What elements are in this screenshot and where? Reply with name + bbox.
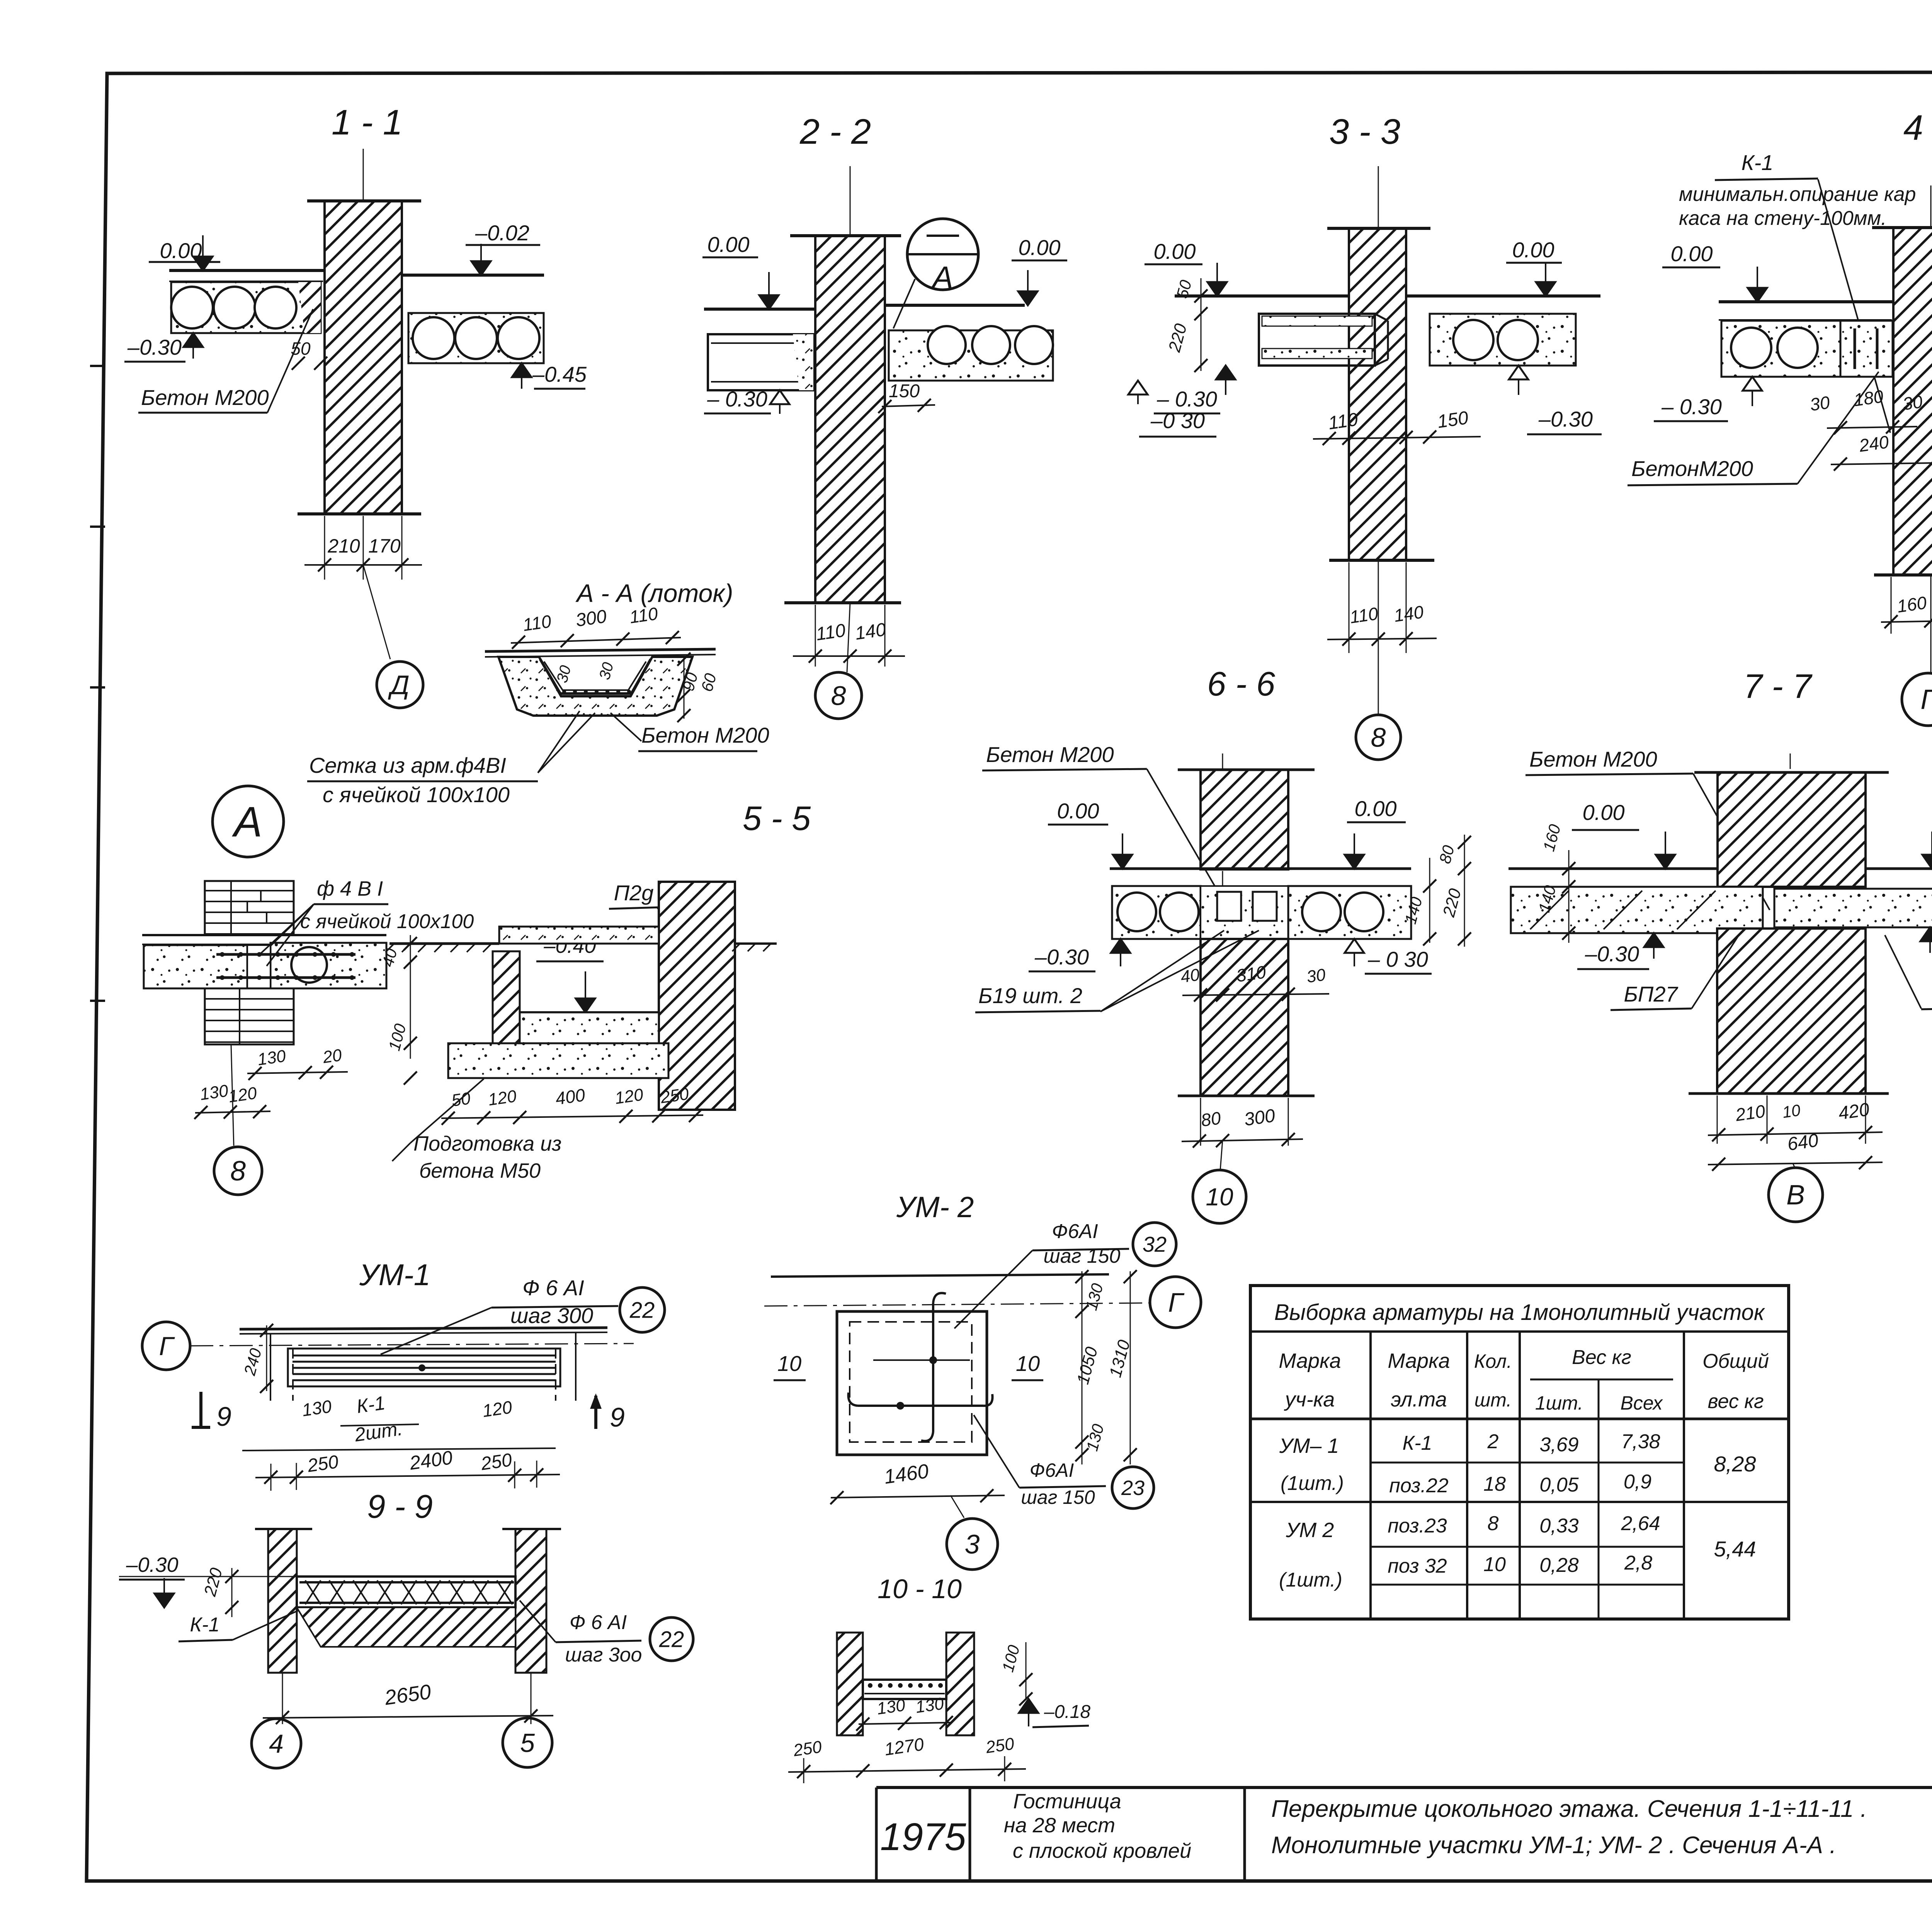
section 9-9 left wall hatched: [268, 1529, 297, 1673]
detail A brick wall below: [205, 988, 294, 1044]
svg-text:Г: Г: [1920, 684, 1932, 715]
section 9-9 monolithic beam band with stirrups: [297, 1577, 515, 1607]
svg-text:210: 210: [327, 535, 360, 557]
svg-text:–0 30: –0 30: [1150, 408, 1205, 433]
section 10-10 left wall hatched: [837, 1633, 863, 1735]
svg-text:–0.45: –0.45: [532, 362, 587, 386]
svg-text:П2g: П2g: [614, 881, 654, 905]
section 3-3 right floor line: [1406, 294, 1600, 298]
section 4-4 left floor line: [1719, 300, 1893, 303]
svg-text:250: 250: [984, 1734, 1015, 1757]
svg-text:Вес кг: Вес кг: [1572, 1346, 1631, 1369]
UM-1 dim line 250 2400 250: [242, 1448, 556, 1451]
svg-text:Монолитные участки УМ-1; У: Монолитные участки УМ-1; УМ- 2 . Сечения…: [1271, 1832, 1836, 1859]
svg-text:шаг 150: шаг 150: [1021, 1486, 1095, 1508]
svg-text:23: 23: [1121, 1476, 1145, 1500]
svg-text:каса на стену-100мм.: каса на стену-100мм.: [1679, 207, 1887, 230]
UM-2 opening outline: [837, 1311, 987, 1455]
axis marker 5 circle section 9-9: [503, 1718, 552, 1767]
svg-text:32: 32: [1143, 1232, 1167, 1257]
pit bottom slab: [520, 1011, 659, 1014]
detail A right slab with core: [270, 943, 386, 988]
pit right wall hatched: [659, 882, 735, 1110]
section 9-9 right wall hatched: [515, 1529, 546, 1673]
detail marker circle A: [213, 786, 284, 857]
axis marker 3 circle UM-2: [951, 1495, 964, 1518]
svg-text:БП27: БП27: [1624, 982, 1678, 1006]
svg-text:Гостиница: Гостиница: [1013, 1790, 1121, 1813]
section 3-3 left trough panel: [1259, 314, 1375, 366]
pit ground line left: [389, 942, 499, 945]
svg-text:уч-ка: уч-ка: [1284, 1388, 1335, 1411]
svg-text:0,33: 0,33: [1539, 1515, 1578, 1537]
section 2-2 left floor line: [704, 308, 815, 311]
section 7-7 bottom dims 210 10 420: [1717, 1095, 1718, 1144]
svg-text:– 0 30: – 0 30: [1367, 947, 1428, 971]
svg-text:–0.30: –0.30: [1585, 942, 1639, 966]
svg-text:Г: Г: [159, 1332, 175, 1361]
section 3-3 left floor line: [1175, 294, 1349, 298]
svg-text:на 28 мест: на 28 мест: [1004, 1814, 1115, 1837]
svg-text:0.00: 0.00: [1512, 238, 1554, 262]
svg-text:с ячейкой 100х100: с ячейкой 100х100: [300, 910, 474, 933]
svg-text:Бетон М200: Бетон М200: [141, 385, 269, 410]
svg-text:–0.30: –0.30: [1034, 945, 1089, 969]
svg-text:Г: Г: [1168, 1287, 1185, 1318]
svg-text:–0.30: –0.30: [1538, 407, 1593, 431]
svg-text:Марка: Марка: [1388, 1349, 1450, 1372]
svg-text:0.00: 0.00: [1355, 796, 1397, 821]
section 7-7 axis: [1790, 753, 1791, 1094]
svg-text:210: 210: [1734, 1101, 1767, 1125]
svg-text:250: 250: [306, 1452, 340, 1476]
svg-text:20: 20: [321, 1046, 343, 1067]
svg-text:УМ– 1: УМ– 1: [1279, 1434, 1339, 1458]
section 9-9 bottom dim 2650: [282, 1673, 283, 1724]
svg-text:А: А: [931, 260, 953, 294]
svg-text:50: 50: [291, 338, 311, 359]
svg-text:8: 8: [230, 1156, 246, 1187]
UM-1 plan slab outline with rebar: [288, 1349, 560, 1386]
svg-text:110: 110: [1349, 603, 1379, 627]
svg-text:130: 130: [199, 1081, 230, 1104]
axis marker 4 circle section 9-9: [252, 1719, 301, 1768]
axis marker G circle UM-1: [142, 1322, 190, 1370]
UM-2 rebar bars with hooks: [932, 1303, 934, 1432]
svg-text:250: 250: [480, 1450, 514, 1475]
svg-text:130: 130: [301, 1396, 333, 1420]
section 2-2 bottom dims 110 140: [815, 605, 816, 667]
svg-text:3: 3: [965, 1529, 980, 1560]
section 4-4 left hollow-core slab with monolith insert: [1721, 321, 1893, 377]
svg-text:80: 80: [1200, 1108, 1222, 1131]
svg-text:Ф6АI: Ф6АI: [1052, 1220, 1098, 1243]
axis marker 10 circle section 6-6: [1220, 1140, 1223, 1170]
svg-text:250: 250: [792, 1737, 823, 1760]
svg-text:120: 120: [487, 1087, 518, 1109]
svg-text:250: 250: [659, 1084, 690, 1107]
UM-2 plan top edge lines: [771, 1274, 1109, 1277]
svg-text:– 0.30: – 0.30: [707, 387, 767, 411]
section 7-7 left slab solid with monolith: [1509, 867, 1718, 870]
svg-text:минимальн.опирание кар: минимальн.опирание кар: [1679, 183, 1916, 206]
rebar table outline: [1250, 1286, 1789, 1619]
svg-text:8: 8: [1488, 1512, 1499, 1535]
svg-text:А: А: [231, 798, 262, 846]
section 6-6 bottom dims 80 300: [1200, 1098, 1201, 1146]
svg-text:Ф6АI: Ф6АI: [1030, 1459, 1074, 1481]
svg-text:3 - 3: 3 - 3: [1329, 112, 1400, 151]
svg-text:УМ- 2: УМ- 2: [896, 1191, 974, 1224]
svg-text:3,69: 3,69: [1539, 1434, 1578, 1456]
svg-text:5: 5: [520, 1728, 535, 1758]
detail A brick wall above: [205, 881, 294, 935]
section 2-2 wall hatched: [815, 236, 885, 603]
section 1-1 axis line: [363, 149, 364, 200]
svg-text:150: 150: [889, 381, 920, 401]
svg-text:0,9: 0,9: [1624, 1471, 1651, 1493]
section 2-2 right floor line: [885, 304, 1025, 307]
svg-text:400: 400: [554, 1085, 587, 1109]
svg-text:БетонМ200: БетонМ200: [1631, 456, 1753, 481]
section 10-10 slab band with rebar dots: [863, 1680, 946, 1699]
svg-text:140: 140: [1393, 602, 1425, 626]
svg-text:10: 10: [1781, 1101, 1802, 1121]
position marker 22 circle section 9-9: [650, 1617, 693, 1661]
svg-text:Сетка из арм.ф4ВI: Сетка из арм.ф4ВI: [309, 753, 506, 777]
section 1-1 right hollow-core slab: [408, 313, 544, 363]
svg-text:Выборка арматуры на 1монолитны: Выборка арматуры на 1монолитный участок: [1274, 1300, 1765, 1325]
svg-text:150: 150: [1436, 408, 1469, 432]
svg-text:18: 18: [1483, 1473, 1506, 1495]
pit left wall hatched: [493, 951, 520, 1044]
svg-text:Бетон М200: Бетон М200: [641, 723, 769, 747]
svg-text:2 - 2: 2 - 2: [799, 112, 871, 151]
svg-text:бетона М50: бетона М50: [419, 1159, 541, 1182]
section 6-6 left hollow-core slab: [1112, 886, 1201, 939]
svg-text:6 - 6: 6 - 6: [1207, 665, 1275, 703]
trough top flange lines: [485, 649, 716, 651]
svg-text:– 0.30: – 0.30: [1661, 395, 1722, 419]
position marker 32 circle UM-2: [1133, 1223, 1176, 1266]
svg-text:110: 110: [628, 603, 659, 627]
detail A left slab: [144, 945, 247, 988]
svg-text:5,44: 5,44: [1714, 1537, 1756, 1561]
svg-text:–0.30: –0.30: [127, 335, 182, 359]
section 3-3 wall hatched: [1349, 228, 1406, 560]
svg-text:В: В: [1786, 1180, 1805, 1211]
svg-text:30: 30: [1809, 392, 1831, 415]
svg-text:К-1: К-1: [190, 1614, 220, 1636]
svg-text:–0.02: –0.02: [475, 221, 529, 245]
svg-text:Подготовка из: Подготовка из: [413, 1132, 561, 1155]
section 1-1 wall hatched: [325, 201, 402, 514]
svg-text:1975: 1975: [880, 1815, 966, 1859]
section 1-1 left hollow-core slab: [171, 282, 321, 333]
svg-text:110: 110: [815, 620, 847, 645]
svg-text:шаг 3оо: шаг 3оо: [565, 1644, 642, 1666]
svg-text:0.00: 0.00: [1057, 799, 1099, 823]
axis marker 8 circle section 2-2: [847, 603, 850, 672]
svg-text:(1шт.): (1шт.): [1279, 1569, 1342, 1591]
section 6-6 right hollow-core slab: [1288, 886, 1411, 939]
svg-text:0.00: 0.00: [707, 232, 750, 257]
svg-text:10 - 10: 10 - 10: [878, 1574, 962, 1604]
svg-text:2,8: 2,8: [1624, 1552, 1652, 1574]
axis marker V circle section 7-7: [1793, 1163, 1795, 1168]
svg-text:8,28: 8,28: [1714, 1452, 1756, 1476]
svg-text:310: 310: [1235, 962, 1267, 986]
section 7-7 lower wall hatched: [1717, 929, 1866, 1094]
svg-text:40: 40: [1179, 965, 1201, 986]
section 6-6 slab top line: [1110, 867, 1411, 870]
svg-text:эл.та: эл.та: [1391, 1388, 1447, 1411]
svg-text:УМ-1: УМ-1: [359, 1258, 430, 1292]
section 1-1 right floor line: [402, 274, 544, 277]
svg-text:–0.18: –0.18: [1044, 1702, 1090, 1722]
svg-text:1 - 1: 1 - 1: [332, 103, 403, 142]
trough inner lining: [540, 659, 651, 694]
svg-text:0,28: 0,28: [1539, 1554, 1578, 1577]
svg-text:0.00: 0.00: [1671, 241, 1713, 266]
svg-text:22: 22: [659, 1627, 684, 1652]
section 4-4 bottom dims 160 90: [1891, 577, 1892, 634]
svg-text:7 - 7: 7 - 7: [1743, 667, 1813, 705]
svg-text:10: 10: [1483, 1553, 1506, 1576]
svg-text:1шт.: 1шт.: [1535, 1392, 1583, 1414]
svg-text:9 - 9: 9 - 9: [367, 1488, 433, 1525]
section 1-1 left floor line: [169, 269, 325, 272]
svg-text:8: 8: [1371, 723, 1386, 753]
svg-text:с плоской кровлей: с плоской кровлей: [1013, 1839, 1191, 1862]
section 6-6 upper wall hatched: [1201, 770, 1288, 869]
svg-text:Марка: Марка: [1279, 1349, 1341, 1372]
svg-text:Д: Д: [388, 670, 409, 700]
section 6-6 monolith with B19 blocks: [1201, 886, 1288, 939]
svg-text:ф 4 В I: ф 4 В I: [317, 877, 383, 900]
svg-text:0.00: 0.00: [1154, 239, 1196, 264]
svg-text:2: 2: [1487, 1430, 1499, 1453]
svg-text:А - А (лоток): А - А (лоток): [575, 579, 733, 607]
svg-text:10: 10: [1016, 1351, 1040, 1376]
svg-text:180: 180: [1852, 386, 1885, 410]
svg-text:– 0.30: – 0.30: [1156, 387, 1217, 411]
svg-text:Общий: Общий: [1702, 1350, 1769, 1372]
pit cover slab hatched top: [499, 927, 659, 944]
svg-text:К-1: К-1: [1742, 150, 1774, 175]
svg-text:с ячейкой 100х100: с ячейкой 100х100: [323, 782, 510, 807]
svg-text:10: 10: [1206, 1183, 1233, 1211]
svg-text:К-1: К-1: [1403, 1432, 1432, 1454]
svg-text:УМ 2: УМ 2: [1286, 1519, 1334, 1542]
section 7-7 right slab BP31: [1866, 867, 1932, 870]
section 2-2 axis: [850, 166, 851, 236]
svg-text:Бетон М200: Бетон М200: [986, 742, 1114, 767]
svg-text:130: 130: [876, 1696, 906, 1718]
svg-text:640: 640: [1786, 1130, 1820, 1155]
svg-text:130: 130: [256, 1046, 287, 1069]
svg-text:10: 10: [777, 1351, 801, 1376]
section 3-3 axis: [1378, 166, 1379, 228]
svg-text:Всех: Всех: [1621, 1392, 1663, 1414]
svg-text:(1шт.): (1шт.): [1281, 1472, 1344, 1495]
title block outline: [876, 1786, 1932, 1789]
pit ground hatch right of wall outside: [735, 942, 777, 945]
svg-text:2,64: 2,64: [1621, 1512, 1660, 1535]
svg-text:160: 160: [1896, 592, 1928, 616]
detail A monolithic joint: [247, 945, 270, 988]
svg-text:300: 300: [1243, 1105, 1276, 1130]
svg-text:130: 130: [914, 1694, 945, 1717]
axis marker G circle UM-2: [1150, 1277, 1201, 1328]
section 6-6 lower wall hatched: [1201, 939, 1288, 1096]
axis marker G circle section 4-4: [1930, 575, 1932, 672]
section 3-3 bottom dims 110 140: [1349, 562, 1350, 653]
section 4-4 wall hatched: [1893, 228, 1932, 575]
svg-text:–0.30: –0.30: [126, 1553, 178, 1577]
svg-text:9: 9: [610, 1402, 625, 1432]
section cut mark 9 right UM-1: [594, 1396, 597, 1429]
section cut mark 9 left UM-1: [199, 1392, 202, 1427]
pit lean concrete base: [448, 1043, 668, 1078]
detail A rebar mesh lines: [216, 953, 355, 956]
svg-text:7,38: 7,38: [1621, 1430, 1660, 1453]
section 2-2 left solid panel: [708, 334, 813, 390]
svg-text:Б19 шт. 2: Б19 шт. 2: [978, 983, 1082, 1008]
svg-text:0.00: 0.00: [1019, 235, 1061, 260]
axis marker 8 circle detail A: [231, 1044, 234, 1146]
svg-text:120: 120: [614, 1085, 645, 1108]
section 9-9 hatched haunch below beam: [297, 1607, 515, 1647]
svg-text:140: 140: [854, 619, 887, 644]
svg-text:300: 300: [574, 606, 608, 631]
axis marker 8 circle section 3-3: [1378, 560, 1379, 715]
svg-text:9: 9: [216, 1401, 231, 1432]
section 6-6 axis: [1222, 753, 1223, 1096]
svg-text:170: 170: [368, 535, 401, 557]
UM-1 plan wall edge lines: [240, 1328, 607, 1329]
fold tick marks on left border: [90, 365, 105, 367]
rebar table grid lines: [1250, 1418, 1789, 1420]
svg-text:Перекрытие цокольного этажа.: Перекрытие цокольного этажа. Сечения 1-1…: [1271, 1796, 1867, 1822]
position marker 22 circle UM-1: [620, 1287, 665, 1332]
svg-text:4: 4: [269, 1729, 284, 1759]
svg-text:Бетон М200: Бетон М200: [1529, 747, 1657, 771]
svg-text:Кол.: Кол.: [1474, 1350, 1512, 1372]
section 3-3 right hollow-core slab: [1430, 314, 1576, 366]
svg-text:Ф 6 АI: Ф 6 АI: [570, 1611, 627, 1634]
svg-text:110: 110: [522, 611, 553, 635]
section 1-1 bottom dims 210 170: [324, 516, 325, 580]
svg-text:Ф 6 АI: Ф 6 АI: [522, 1276, 584, 1300]
svg-text:поз 32: поз 32: [1388, 1555, 1447, 1577]
svg-text:0,05: 0,05: [1539, 1474, 1579, 1496]
detail A floor lines: [142, 934, 386, 936]
svg-text:поз.23: поз.23: [1388, 1515, 1447, 1537]
svg-text:110: 110: [1327, 409, 1359, 434]
section 10-10 right wall hatched: [946, 1633, 974, 1735]
svg-text:120: 120: [481, 1397, 514, 1421]
axis marker D circle section 1-1: [363, 565, 390, 659]
svg-text:К-1: К-1: [355, 1392, 386, 1417]
svg-text:240: 240: [1857, 432, 1890, 456]
section 4-4 axis: [1930, 185, 1932, 228]
trough body hatched: [498, 657, 692, 716]
svg-text:30: 30: [1901, 391, 1924, 414]
svg-text:30: 30: [1305, 965, 1327, 986]
svg-text:5 - 5: 5 - 5: [743, 799, 811, 837]
section 7-7 monolithic joint lines: [1762, 887, 1764, 933]
svg-text:поз.22: поз.22: [1389, 1475, 1448, 1497]
section 7-7 upper wall hatched: [1718, 772, 1866, 887]
svg-text:22: 22: [629, 1298, 655, 1323]
callout circle A section 2-2: [907, 219, 978, 290]
svg-text:420: 420: [1837, 1099, 1871, 1124]
svg-text:4 - 4: 4 - 4: [1903, 108, 1932, 148]
position marker 23 circle UM-2: [1112, 1467, 1154, 1509]
svg-text:8: 8: [831, 681, 846, 711]
section 2-2 right hollow-core slab: [889, 330, 1053, 381]
svg-text:0.00: 0.00: [1583, 800, 1625, 825]
svg-text:вес кг: вес кг: [1708, 1390, 1764, 1413]
svg-text:шт.: шт.: [1475, 1389, 1512, 1411]
